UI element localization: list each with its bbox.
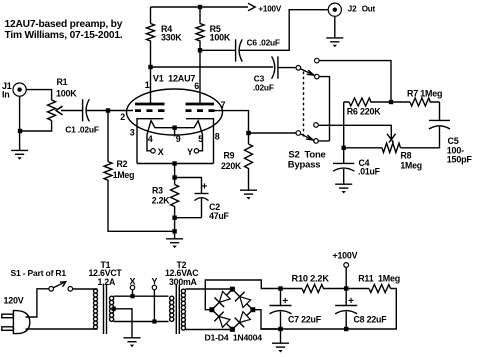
svg-text:R6 220K: R6 220K	[347, 107, 382, 117]
node +100V/R11	[344, 286, 348, 290]
svg-text:47uF: 47uF	[209, 211, 229, 221]
svg-text:.01uF: .01uF	[358, 167, 381, 177]
heater lead pin4 to X terminal	[147, 135, 151, 151]
svg-text:D1-D4 1N4004: D1-D4 1N4004	[205, 333, 263, 343]
node plate1 / C3 tap	[148, 65, 152, 69]
heater lead pin5 to Y terminal	[199, 135, 203, 151]
ground (C4)	[335, 184, 352, 193]
svg-text:+100V: +100V	[258, 5, 281, 14]
wire R7 to C5	[439, 102, 441, 120]
svg-text:C1 .02uF: C1 .02uF	[65, 125, 99, 135]
svg-text:4: 4	[148, 134, 153, 144]
ground (C7)	[272, 343, 289, 352]
wire bridge - (right corner) to ground bus	[253, 310, 281, 329]
resistor R5	[196, 7, 231, 50]
diode D2	[219, 317, 230, 328]
T1 center tap to ground	[112, 307, 132, 338]
resistor R3	[152, 178, 179, 218]
wire S2b top throw to R8 wiper	[318, 125, 391, 134]
svg-text:12AU7-based preamp, by: 12AU7-based preamp, by	[5, 19, 123, 30]
plate pin6 (right triode)	[186, 50, 215, 104]
ground (R9)	[240, 190, 257, 199]
heater bus top X	[114, 295, 169, 297]
svg-text:S1 - Part of R1: S1 - Part of R1	[11, 268, 67, 278]
diode bridge D1-D4	[205, 287, 263, 343]
resistor R7	[391, 89, 442, 107]
switch S2 section B	[296, 123, 318, 144]
capacitor C1	[65, 99, 99, 134]
node C7/R10	[278, 286, 282, 290]
junction on J1 sleeve	[18, 129, 22, 133]
wire J1 to R1 top	[26, 90, 51, 100]
resistor R11	[346, 274, 400, 293]
resistor R2	[104, 111, 134, 181]
capacitor C5	[429, 120, 472, 164]
svg-text:150pF: 150pF	[447, 154, 473, 164]
wire pin7 to R9/S2b common	[215, 111, 297, 133]
junction ground bus	[172, 229, 176, 233]
diode D4	[240, 312, 251, 323]
svg-text:330K: 330K	[161, 33, 182, 43]
wire T2 secondary bottom to bridge	[186, 329, 231, 331]
wire R1 bottom to J1 ground	[20, 121, 52, 132]
svg-text:9: 9	[176, 134, 181, 144]
node grid1	[106, 108, 110, 112]
svg-text:X: X	[158, 147, 164, 157]
svg-text:120V: 120V	[4, 296, 24, 306]
label S2	[288, 149, 326, 170]
wire C5 to R8 right	[401, 127, 440, 148]
wire C7 bottom to ground	[280, 329, 282, 343]
terminal X	[151, 147, 164, 157]
title text	[5, 19, 123, 41]
capacitor C8 electrolytic	[335, 289, 387, 330]
svg-text:6: 6	[194, 81, 199, 91]
svg-text:Tim Williams, 07-15-2001.: Tim Williams, 07-15-2001.	[5, 30, 123, 41]
diode D3	[240, 297, 251, 308]
svg-text:7: 7	[221, 100, 226, 110]
resistor R10	[281, 274, 347, 293]
svg-text:Y: Y	[187, 147, 193, 157]
plate pin1 (left triode)	[135, 67, 165, 104]
svg-text:R9: R9	[224, 151, 235, 161]
wire plug bottom to T1 primary	[26, 328, 98, 330]
AC plug	[2, 311, 30, 334]
svg-text:X: X	[130, 277, 136, 287]
wire J2 sleeve to ground	[334, 16, 336, 38]
wire C3 to S2a common	[278, 67, 296, 69]
capacitor C2 electrolytic	[175, 178, 230, 221]
svg-text:R10 2.2K: R10 2.2K	[292, 274, 330, 284]
wire T2 secondary top to bridge	[186, 288, 231, 290]
svg-text:V1 12AU7: V1 12AU7	[153, 73, 195, 83]
node C7 bottom	[278, 327, 282, 331]
svg-text:Y: Y	[152, 277, 158, 287]
node N1	[389, 100, 393, 104]
svg-text:100K: 100K	[210, 33, 231, 43]
+100V supply rail top	[151, 3, 282, 13]
wire S2a top throw to node N1	[319, 61, 391, 102]
svg-text:C7 22uF: C7 22uF	[288, 315, 322, 325]
wire S2a bottom throw to S2b bottom throw	[318, 77, 329, 141]
svg-text:Bypass: Bypass	[288, 160, 321, 171]
svg-text:8: 8	[215, 132, 220, 142]
junction R5 top	[198, 5, 202, 9]
potentiometer R1	[48, 77, 78, 121]
terminal Y bottom	[152, 277, 158, 290]
transformer T2	[165, 260, 199, 334]
wire C1 to grid node	[87, 110, 133, 112]
connector J2	[328, 3, 375, 16]
svg-text:+: +	[348, 296, 354, 307]
wire R11 right return	[261, 289, 396, 330]
svg-text:C8 22uF: C8 22uF	[354, 315, 388, 325]
capacitor C4	[333, 148, 381, 184]
S2 gang link dashed	[303, 72, 305, 140]
svg-text:1: 1	[145, 80, 150, 90]
svg-text:R1: R1	[57, 77, 68, 87]
transformer T1	[89, 260, 123, 334]
svg-text:R7 1Meg: R7 1Meg	[407, 89, 442, 99]
potentiometer R8	[344, 134, 422, 171]
ground (R3/C2)	[166, 239, 183, 248]
wire C6 to J2	[240, 10, 329, 51]
capacitor C6	[236, 38, 280, 62]
switch S1	[49, 282, 73, 291]
junction R9 top	[246, 131, 250, 135]
cathode pin3 (left triode)	[130, 119, 164, 164]
svg-text:R2: R2	[117, 159, 128, 169]
svg-text:In: In	[2, 90, 10, 100]
svg-text:J2: J2	[348, 5, 357, 14]
+100V terminal bottom	[333, 251, 358, 289]
svg-text:1Meg: 1Meg	[400, 161, 422, 171]
wire R5 to C6	[200, 49, 236, 51]
ground (J1)	[11, 150, 28, 159]
wire bridge + (left corner) to filter	[205, 280, 280, 310]
node R3/C2 bottom	[172, 216, 176, 220]
grid pin7 dashed (right triode)	[186, 100, 226, 111]
svg-text:R3: R3	[152, 185, 163, 195]
node plate2 / C6 tap	[198, 48, 202, 52]
svg-text:220K: 220K	[221, 161, 242, 171]
svg-text:300mA: 300mA	[169, 277, 198, 287]
wire J1 sleeve down	[19, 96, 21, 150]
svg-text:.02uF: .02uF	[253, 82, 274, 92]
svg-text:R8: R8	[401, 151, 412, 161]
resistor R4	[147, 7, 183, 67]
wire S1 to T1 primary	[73, 288, 98, 290]
grid pin2 dashed (left triode)	[120, 111, 164, 122]
ground (T1 CT)	[124, 338, 141, 347]
node C8 bottom	[344, 327, 348, 331]
wire plug to S1	[26, 289, 49, 317]
heater filament pins 4-9-5	[147, 121, 203, 144]
svg-text:2.2K: 2.2K	[152, 196, 171, 206]
terminal X bottom	[130, 277, 136, 290]
wire R6 left down to node N2	[343, 102, 345, 148]
node N2	[342, 146, 346, 150]
terminal Y	[187, 147, 199, 157]
wire plate1 to C3	[151, 66, 274, 68]
tube V1 envelope	[127, 73, 223, 135]
svg-text:1.2A: 1.2A	[98, 277, 117, 287]
svg-text:C6 .02uF: C6 .02uF	[247, 38, 280, 48]
svg-text:+: +	[202, 182, 208, 193]
ground (J2)	[326, 38, 343, 47]
wire to ground	[174, 218, 176, 239]
diode D1	[219, 291, 230, 302]
resistor R6	[344, 98, 391, 117]
capacitor C3	[253, 56, 278, 92]
svg-text:100K: 100K	[56, 89, 77, 99]
svg-text:2: 2	[120, 112, 125, 122]
resistor R9	[221, 133, 253, 190]
switch S2 section A	[296, 58, 319, 79]
svg-text:Out: Out	[362, 5, 376, 14]
cathode pin8 (right triode)	[186, 119, 220, 164]
capacitor C7 electrolytic	[270, 289, 322, 330]
svg-text:+: +	[282, 296, 288, 307]
svg-text:R11 1Meg: R11 1Meg	[358, 274, 400, 284]
cathode bus bottom	[137, 161, 214, 179]
heater bus bottom Y	[114, 321, 169, 323]
connector J1	[2, 81, 26, 100]
wire R2 bottom to ground bus	[108, 180, 175, 231]
wire R1 wiper to C1	[61, 110, 83, 112]
svg-text:3: 3	[130, 128, 135, 138]
svg-text:+100V: +100V	[333, 251, 358, 261]
svg-text:1Meg: 1Meg	[113, 170, 135, 180]
